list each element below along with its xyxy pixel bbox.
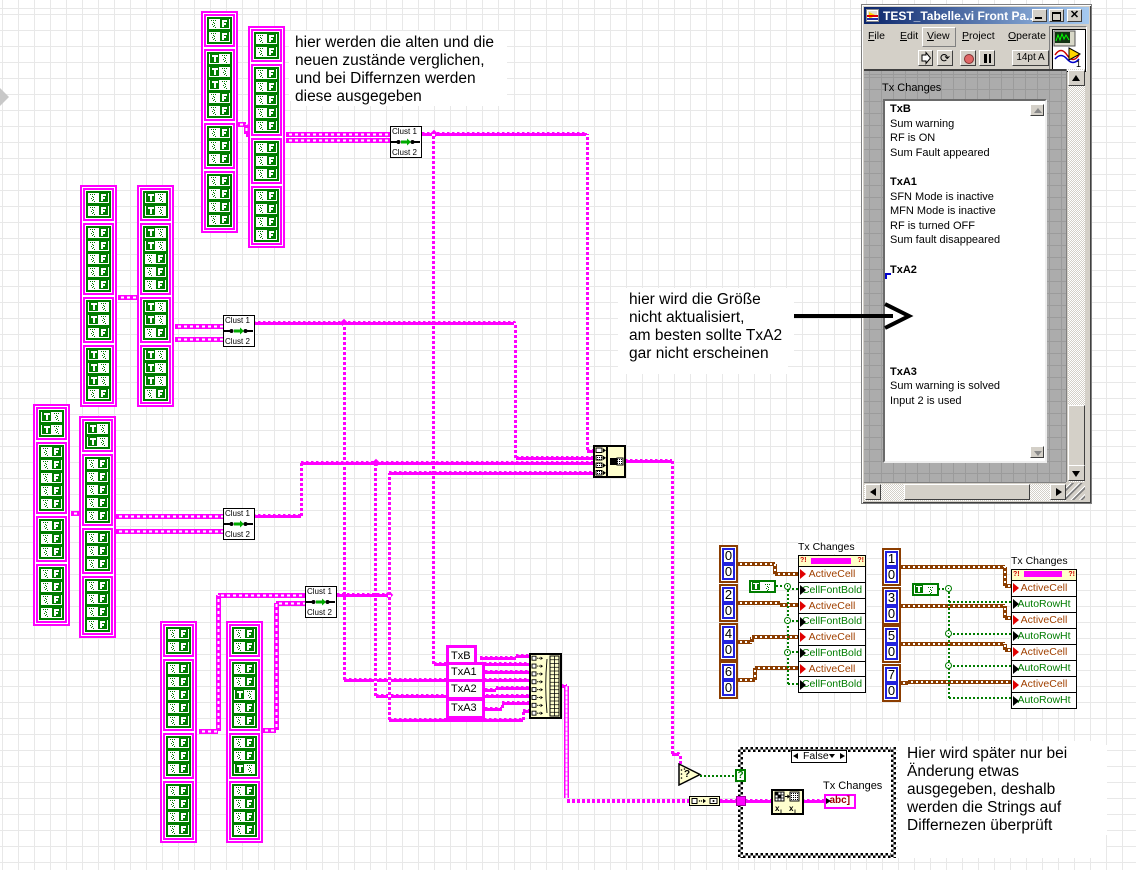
svg-text:1: 1 <box>1076 59 1081 69</box>
svg-text:ij: ij <box>780 809 782 815</box>
svg-text:?: ? <box>684 769 690 780</box>
svg-text:ij: ij <box>794 809 796 815</box>
